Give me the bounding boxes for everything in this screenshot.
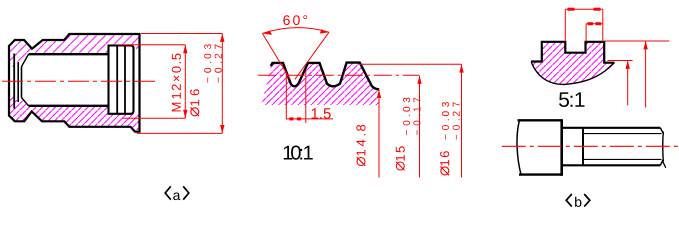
lower dim arrow right	[596, 22, 602, 25]
pitch dim line	[286, 118, 333, 120]
end chamfer bottom	[660, 159, 663, 165]
dia15 arrow	[417, 76, 421, 84]
dia15 -0.03 -0.17 label	[396, 98, 421, 171]
depth dim line A	[627, 61, 629, 105]
label (a)	[165, 186, 189, 199]
hatch groove block	[531, 42, 614, 85]
dia16 dim line (mid)	[461, 64, 463, 177]
upper dim ext right	[602, 9, 604, 42]
dia16 -0.03 -0.27 label (a)	[190, 44, 222, 116]
pitch line dash-dot	[258, 74, 420, 76]
upper dim arrow left	[568, 8, 575, 11]
thread start line	[582, 128, 584, 166]
dia16 arrow bottom (a)	[220, 125, 224, 133]
crest extension line	[360, 63, 462, 65]
M12 arrow bottom	[183, 110, 187, 118]
end runout foot	[662, 161, 666, 168]
dia16 top extension line (a)	[141, 33, 222, 35]
shaft large cylinder bottom	[519, 173, 562, 175]
lower dim ext left	[585, 24, 587, 42]
groove profile	[531, 42, 614, 63]
60 arc arrow right	[320, 29, 329, 33]
dia15 dim line	[419, 76, 421, 178]
shaft large cylinder top	[518, 119, 562, 121]
insert line 1	[116, 46, 118, 114]
end chamfer top	[660, 128, 663, 134]
depth arrow B	[643, 41, 647, 49]
dia16 -0.03 -0.27 label (mid)	[440, 102, 460, 175]
thread profile	[271, 63, 379, 90]
thread minor top	[583, 133, 662, 135]
M12 arrow top	[183, 45, 187, 53]
bore entry chamfer top	[22, 54, 29, 66]
left wall inner face	[13, 54, 15, 109]
thread minor bottom	[583, 158, 662, 160]
bore top edge	[29, 53, 110, 55]
1.5 label	[312, 108, 331, 118]
hatch thread block	[262, 63, 380, 105]
centerline (b)	[502, 145, 679, 147]
upper dim ext left	[564, 9, 566, 42]
dia16 arrow top (a)	[220, 34, 224, 42]
dia16 arrow (mid)	[459, 64, 463, 72]
shaft shoulder right edge	[560, 119, 563, 176]
dia14.8 label	[356, 125, 365, 166]
depth arrow A	[626, 61, 630, 69]
60 deg flank line left	[262, 33, 290, 79]
depth dim line B	[645, 42, 647, 108]
hatch bottom band (a)	[9, 96, 140, 132]
end face	[662, 132, 665, 162]
right ext line top	[605, 40, 670, 42]
pitch ext line left	[285, 72, 287, 120]
upper dim arrow right	[594, 8, 601, 11]
dia16 bottom extension line (a)	[137, 132, 223, 134]
dia14.8 dim line	[378, 90, 380, 178]
lower dim line	[586, 23, 603, 25]
insert outline	[109, 46, 134, 114]
hatch top band (a)	[9, 34, 140, 67]
dia16 dimension line (a)	[221, 34, 223, 134]
60 deg flank line right	[295, 32, 329, 79]
pitch arrow dash right	[297, 117, 301, 120]
M12 top extension line	[119, 44, 185, 46]
pitch arrow dash left	[289, 117, 293, 120]
M12x0.5 label	[172, 54, 181, 112]
M12 dimension line	[184, 45, 186, 118]
5:1 label	[559, 92, 585, 107]
small cylinder bottom	[562, 164, 661, 166]
bore entry chamfer bottom	[22, 98, 29, 106]
60 arc arrow left	[262, 31, 271, 35]
upper dim line	[565, 8, 603, 10]
bore bottom edge	[29, 105, 110, 107]
right ext line mid	[608, 60, 633, 62]
left hole step 2	[21, 67, 23, 98]
M12 bottom extension line	[122, 117, 185, 119]
10:1 label	[284, 146, 313, 160]
centerline (a)	[2, 80, 158, 82]
groove bottom arc	[531, 62, 614, 85]
pitch ext line right	[305, 72, 307, 124]
left hole step 1	[17, 62, 19, 102]
insert line 2	[124, 46, 126, 114]
dia14.8 arrow	[377, 90, 381, 98]
small cylinder top	[562, 127, 661, 129]
60deg label	[283, 15, 307, 25]
shaft break curve	[517, 120, 521, 174]
60 deg arc	[262, 28, 329, 34]
nut outer profile	[9, 34, 140, 132]
label (b)	[566, 194, 590, 207]
lower dim arrow left	[588, 22, 594, 25]
